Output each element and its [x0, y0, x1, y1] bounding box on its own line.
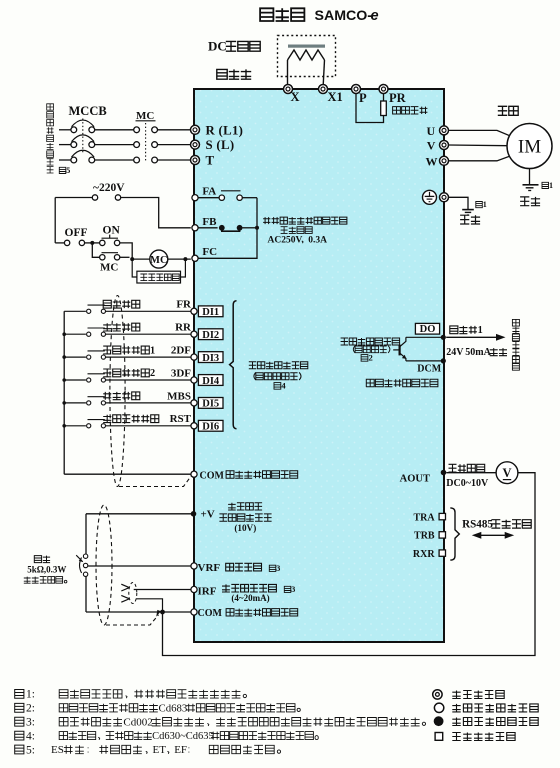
- svg-text:3: 3: [291, 585, 295, 594]
- label DC电抗器: [208, 39, 260, 54]
- cable shield ellipse (IRF): [129, 583, 137, 604]
- wire DI3 left: [64, 356, 86, 358]
- svg-text:1: 1: [150, 345, 155, 356]
- label W: [426, 154, 438, 168]
- terminal V: [440, 141, 449, 150]
- terminal TRA (square): [439, 513, 445, 519]
- wire ON right: [120, 243, 132, 259]
- svg-text:TRA: TRA: [413, 512, 435, 523]
- label 异常警报信号输出端子: [263, 217, 347, 224]
- terminal PE: [440, 193, 449, 202]
- svg-text:DC: DC: [208, 39, 227, 54]
- earth symbol in circle (PE): [423, 190, 437, 204]
- label R (L1): [206, 123, 244, 137]
- svg-text:MBS: MBS: [167, 390, 191, 402]
- svg-text:+V: +V: [201, 509, 215, 521]
- wire FA row: [198, 197, 219, 199]
- legend symbol 控制电路输入端子: [434, 703, 443, 712]
- svg-text:FC: FC: [202, 246, 217, 258]
- contact OFF b: [79, 240, 84, 245]
- terminal R (L1): [191, 125, 200, 134]
- label AOUT: [400, 474, 430, 485]
- legend symbol 主电路端子: [433, 690, 442, 699]
- label 5kΩ,0.3W: [27, 565, 66, 575]
- contactor MC link (dotted): [145, 123, 147, 161]
- svg-text:ES: ES: [51, 744, 64, 756]
- terminal COM2: [191, 609, 197, 615]
- terminal DI6: [191, 423, 197, 429]
- label 三相/单相交流电源 (AC source): [47, 104, 54, 173]
- label FC: [202, 246, 217, 258]
- motor IM: [507, 124, 552, 169]
- wire S stub: [59, 144, 71, 146]
- svg-text:1: 1: [483, 200, 487, 209]
- switch DI6: [87, 420, 106, 428]
- svg-text:(10V): (10V): [234, 523, 256, 533]
- terminal X: [284, 85, 293, 94]
- label COM (lower): [198, 608, 223, 619]
- svg-text:FB: FB: [202, 216, 217, 228]
- label IRF: [198, 585, 217, 597]
- wire rail-OFF: [55, 242, 64, 244]
- label AC250V 0.3A: [268, 236, 328, 246]
- svg-text:MC: MC: [100, 262, 118, 274]
- label 空转指令: [103, 392, 140, 400]
- shield arrow: [156, 610, 161, 617]
- wire pot bottom lead: [85, 577, 87, 613]
- DC reactor core bar: [288, 45, 325, 48]
- wire FB row: [198, 227, 218, 229]
- wire DI2 right: [106, 333, 191, 335]
- svg-text:1:: 1:: [26, 689, 35, 701]
- svg-text:RXR: RXR: [413, 549, 435, 560]
- svg-text:P: P: [359, 91, 367, 105]
- terminal DI1: [191, 308, 197, 314]
- legend symbol 控制电路输出端子: [434, 716, 444, 726]
- label COM: [200, 470, 225, 481]
- svg-text:MC: MC: [150, 255, 168, 266]
- breaker MCCB link (dotted): [82, 119, 84, 153]
- wire DI3 right: [106, 356, 191, 358]
- wire MC-terminal R: [158, 129, 191, 131]
- bracket DI group: [230, 301, 237, 429]
- junction FB-common: [255, 226, 259, 230]
- svg-text:EF: EF: [174, 744, 187, 756]
- wire PR lead: [383, 94, 385, 102]
- svg-text:DI1: DI1: [202, 307, 219, 318]
- legend label 控制电路输出端子: [452, 718, 538, 726]
- svg-text:T: T: [206, 153, 215, 167]
- transistor Q1 (open collector): [393, 337, 406, 361]
- breaker MCCB pole R: [71, 120, 95, 133]
- contact 220V b: [115, 195, 120, 200]
- label PR: [389, 91, 407, 105]
- svg-text:V: V: [502, 466, 511, 480]
- junction rail DI3: [62, 355, 66, 359]
- contact MC aux: [100, 253, 120, 260]
- contactor MC pole T: [134, 157, 158, 163]
- svg-text:DI4: DI4: [202, 376, 220, 387]
- svg-text:ET: ET: [153, 744, 167, 756]
- svg-text:V: V: [427, 139, 436, 153]
- bracket RS485 group: [450, 508, 459, 560]
- label ON: [103, 224, 121, 236]
- svg-text:RST: RST: [170, 413, 192, 425]
- svg-text:4:: 4:: [26, 730, 35, 742]
- label 模拟输出: [449, 464, 485, 472]
- svg-text:W: W: [426, 154, 438, 168]
- wire coil-FC: [168, 258, 191, 260]
- svg-text:DI3: DI3: [202, 353, 219, 364]
- wire MCCB-MC R: [95, 129, 134, 131]
- wire voltmeter loop: [163, 473, 536, 656]
- note line 5: [15, 744, 281, 756]
- wire DI5 right: [106, 402, 191, 404]
- label 正转指令: [103, 300, 140, 308]
- surge suppressor 电涌抑制器: [137, 271, 181, 283]
- svg-text:1: 1: [549, 181, 553, 190]
- label 多功能输入端子: [249, 362, 308, 369]
- switch DI5: [87, 397, 106, 405]
- svg-text:50mA: 50mA: [465, 347, 491, 358]
- svg-text:U: U: [427, 124, 436, 138]
- wire FB right: [242, 227, 257, 229]
- wire left rail 220V: [54, 198, 56, 243]
- svg-text:~220V: ~220V: [93, 182, 125, 194]
- terminal PR: [379, 85, 388, 94]
- wire motor ground lead: [529, 169, 531, 185]
- wire MCaux right: [120, 256, 130, 258]
- note ref 注3 (IRF): [284, 585, 295, 594]
- svg-text:AOUT: AOUT: [400, 474, 430, 485]
- pushbutton ON: [100, 235, 120, 246]
- svg-text:SAMCO-: SAMCO-: [315, 8, 373, 24]
- label TRB: [414, 531, 435, 542]
- svg-text:5: 5: [66, 166, 70, 175]
- label 输出信号公共端子: [366, 379, 438, 386]
- wire collector-DO: [406, 336, 443, 338]
- svg-text:RS485: RS485: [462, 519, 493, 531]
- label 24V 50mA以下: [446, 347, 507, 358]
- terminal FC: [192, 255, 198, 261]
- wire DI2 left: [64, 333, 86, 335]
- cable shield ellipse (DI bundle): [110, 296, 125, 487]
- note ref 注3 (VRF): [269, 564, 280, 573]
- terminal VRF: [191, 563, 197, 569]
- label 反转指令: [103, 323, 140, 331]
- terminal DI5: [191, 400, 197, 406]
- terminal DI2: [191, 331, 197, 337]
- terminal +V: [191, 511, 197, 517]
- wire DI1 left: [64, 310, 86, 312]
- note ref 注1 (PE ground): [476, 200, 487, 209]
- label 采用: [34, 556, 50, 563]
- terminal P: [352, 85, 361, 94]
- note ref 注2: [361, 353, 373, 363]
- terminal IRF: [191, 586, 197, 592]
- label MC (aux): [100, 262, 118, 274]
- wire DI6 right: [106, 425, 191, 427]
- DC reactor dashed enclosure: [278, 36, 336, 77]
- wire IRF return: [136, 599, 163, 612]
- wire OFF-node: [85, 242, 100, 244]
- svg-text:3DF: 3DF: [171, 367, 191, 379]
- node A junction: [90, 241, 94, 245]
- label （出厂设定）: [353, 346, 390, 353]
- svg-text:2DF: 2DF: [171, 345, 191, 357]
- svg-text:FA: FA: [202, 186, 216, 198]
- wire emitter-DCM: [406, 360, 443, 362]
- svg-text:X: X: [291, 90, 300, 104]
- svg-text:5:: 5:: [26, 744, 35, 756]
- title 变频器: [260, 8, 304, 21]
- switch DI2: [87, 328, 106, 336]
- wire MC-terminal S: [158, 144, 191, 146]
- svg-text:FR: FR: [176, 299, 192, 311]
- wire FC common riser: [198, 198, 257, 259]
- svg-text:2:: 2:: [26, 703, 35, 715]
- label 开路集电极输出 (vertical): [512, 319, 519, 370]
- arrow run output: [446, 334, 505, 341]
- label MBS: [167, 390, 191, 402]
- note line 4: [15, 730, 319, 742]
- logo SAMCO-e: [315, 8, 379, 24]
- wire W-motor: [449, 155, 513, 161]
- wire V-motor: [449, 144, 508, 147]
- switch DI4: [87, 374, 106, 382]
- svg-text:X1: X1: [328, 90, 343, 104]
- label +V: [201, 509, 215, 521]
- label RST: [170, 413, 192, 425]
- junction rail DI6: [62, 424, 66, 428]
- svg-text:AC250V: AC250V: [268, 236, 303, 246]
- label TRA: [413, 512, 435, 523]
- terminal DI4: [191, 377, 197, 383]
- svg-text:3: 3: [276, 564, 280, 573]
- terminal S (L): [191, 140, 200, 149]
- wire node-MCaux: [92, 243, 99, 257]
- wire FA right: [242, 197, 257, 199]
- label 制动电阻 (braking resistor): [393, 107, 428, 114]
- ground (PE): [462, 210, 474, 215]
- breaker MCCB pole T: [71, 150, 95, 163]
- wire PE-ground: [449, 197, 469, 209]
- legend label 主电路端子: [452, 691, 504, 699]
- label 多功能输出端子: [341, 338, 400, 345]
- label 运转中1: [450, 325, 483, 336]
- junction rail DI2: [62, 332, 66, 336]
- svg-text:OFF: OFF: [65, 227, 88, 239]
- wire MC-terminal T: [158, 159, 191, 161]
- switch DI1: [87, 305, 106, 313]
- terminal TRB (square): [439, 532, 445, 538]
- contact FB (NC closed): [219, 225, 243, 231]
- wire VRF row: [88, 565, 193, 567]
- label (10V): [234, 523, 256, 533]
- coil MC (contactor coil): [150, 250, 168, 268]
- terminal COM: [191, 471, 197, 477]
- label 设定端子: [226, 563, 262, 571]
- svg-text:DI5: DI5: [202, 399, 219, 410]
- arrow RS485 bidirectional: [472, 532, 514, 539]
- svg-text:COM: COM: [198, 608, 223, 619]
- label FB: [202, 216, 217, 228]
- label 频率设定端子: [222, 584, 276, 592]
- label 输入信号公共端子 (upper): [226, 471, 298, 478]
- terminal DCM (dot): [441, 358, 446, 363]
- wire shield to COM2 (dashed): [106, 615, 159, 625]
- label VRF: [198, 562, 221, 574]
- terminal AOUT: [441, 470, 447, 476]
- label FR: [176, 299, 192, 311]
- label 输入信号公共端子 (lower): [226, 609, 298, 616]
- wire X1 lead: [323, 60, 325, 89]
- wire MCCB-MC S: [95, 144, 134, 146]
- svg-text:DO: DO: [420, 324, 436, 335]
- terminal box DO: [415, 323, 439, 335]
- terminal W: [440, 156, 449, 165]
- wire 220V to FB: [121, 198, 191, 228]
- contact 220V a: [92, 195, 97, 200]
- junction FC side: [183, 257, 187, 261]
- svg-text:1: 1: [478, 325, 483, 336]
- junction rail DI4: [62, 378, 66, 382]
- wire DI1 right: [106, 310, 191, 312]
- wire 220V row: [55, 197, 92, 199]
- svg-text:2: 2: [369, 353, 373, 363]
- svg-text:MCCB: MCCB: [69, 104, 107, 118]
- note line 1: [15, 689, 247, 701]
- label 多段速指令2: [103, 368, 155, 379]
- terminal U: [440, 126, 449, 135]
- terminal box DI6: [198, 420, 223, 432]
- svg-text:VRF: VRF: [198, 562, 221, 574]
- contact OFF a: [64, 240, 69, 245]
- wire U-motor: [449, 130, 512, 136]
- svg-text:S (L): S (L): [206, 138, 235, 152]
- inverter main unit body: [194, 89, 444, 642]
- label FA: [202, 186, 216, 198]
- junction rail DI5: [62, 401, 66, 405]
- label MC: [136, 110, 156, 122]
- label 频率设定: [228, 503, 262, 510]
- terminal box DI5: [198, 398, 223, 410]
- label 多段速指令1: [103, 345, 155, 356]
- terminal box DI3: [198, 352, 223, 364]
- svg-text:ON: ON: [103, 224, 121, 236]
- svg-text:IRF: IRF: [198, 585, 217, 597]
- svg-text:IM: IM: [518, 137, 541, 158]
- wire DI5 left: [64, 402, 86, 404]
- svg-text:DC0~10V: DC0~10V: [446, 478, 489, 489]
- label RXR: [413, 549, 435, 560]
- svg-text:RR: RR: [175, 322, 192, 334]
- svg-text:0.3A: 0.3A: [308, 236, 327, 246]
- svg-text:TRB: TRB: [414, 531, 435, 542]
- label S (L): [206, 138, 235, 152]
- svg-text:Cd630~Cd635: Cd630~Cd635: [152, 731, 214, 742]
- ground (motor): [523, 185, 539, 191]
- label （出厂时设定）: [254, 372, 301, 380]
- surge suppressor leads: [132, 259, 185, 277]
- junction MC coil left: [130, 257, 134, 261]
- note ref 注1 (motor ground): [542, 181, 553, 190]
- potentiometer 5k: [76, 554, 88, 577]
- wire shield to COM (dashed): [119, 476, 192, 487]
- label OFF: [65, 227, 88, 239]
- label 接地 (PE): [460, 215, 480, 224]
- contactor MC pole R: [134, 127, 158, 133]
- label MCCB: [69, 104, 107, 118]
- legend label 通信回路端子: [452, 733, 515, 741]
- wire R stub: [59, 129, 71, 131]
- label U: [427, 124, 436, 138]
- label X1: [328, 90, 343, 104]
- svg-text:3:: 3:: [26, 717, 35, 729]
- contact FA (NO): [219, 191, 242, 201]
- legend label 控制电路输入端子: [452, 704, 538, 712]
- terminal X1: [319, 85, 328, 94]
- wire IRF row: [134, 589, 193, 591]
- svg-text:(4~20mA): (4~20mA): [231, 593, 269, 603]
- current source arrows (4-20mA): [121, 584, 129, 602]
- terminal DO (dot): [441, 335, 446, 340]
- wire MCCB-MC T: [95, 159, 134, 161]
- svg-text:e: e: [371, 8, 379, 24]
- junction COM2: [160, 610, 165, 615]
- svg-text:DI6: DI6: [202, 422, 219, 433]
- note ref 注4: [274, 381, 286, 391]
- terminal RXR (square): [439, 550, 445, 556]
- wire pot top lead: [85, 514, 87, 554]
- resistor braking (body): [381, 101, 387, 116]
- svg-text:2: 2: [150, 368, 155, 379]
- terminal T: [191, 156, 200, 165]
- label 3DF: [171, 367, 191, 379]
- terminal box DI4: [198, 375, 223, 387]
- breaker MCCB pole S: [71, 135, 95, 148]
- terminal FA: [192, 195, 198, 201]
- label V: [427, 139, 436, 153]
- label X: [291, 90, 300, 104]
- wire DI4 right: [106, 379, 191, 381]
- label (4~20mA): [231, 593, 269, 603]
- svg-text:COM: COM: [200, 470, 225, 481]
- label T: [206, 153, 215, 167]
- legend symbol 通信回路端子: [435, 733, 443, 741]
- wire DI left rail: [63, 311, 65, 474]
- contactor MC pole S: [134, 142, 158, 148]
- wire COM row: [64, 473, 191, 475]
- label DCM: [417, 363, 441, 374]
- label 报警清除指令: [103, 415, 159, 423]
- terminal box DI2: [198, 329, 223, 341]
- note ref 注5: [59, 166, 70, 175]
- svg-text:PR: PR: [389, 91, 407, 105]
- svg-text:5kΩ,0.3W: 5kΩ,0.3W: [27, 565, 66, 575]
- svg-text:Cd002: Cd002: [123, 716, 152, 728]
- label RS485通信端子: [462, 519, 531, 531]
- terminal box DI1: [198, 306, 223, 318]
- terminal DI3: [191, 354, 197, 360]
- wire AOUT-voltmeter: [446, 472, 496, 474]
- label 选购件 (optional): [217, 69, 251, 79]
- label RR: [175, 322, 192, 334]
- wire junction-coil: [132, 258, 150, 260]
- svg-text:4: 4: [281, 381, 286, 391]
- wire COM2 row: [86, 611, 193, 613]
- switch DI3: [87, 351, 106, 359]
